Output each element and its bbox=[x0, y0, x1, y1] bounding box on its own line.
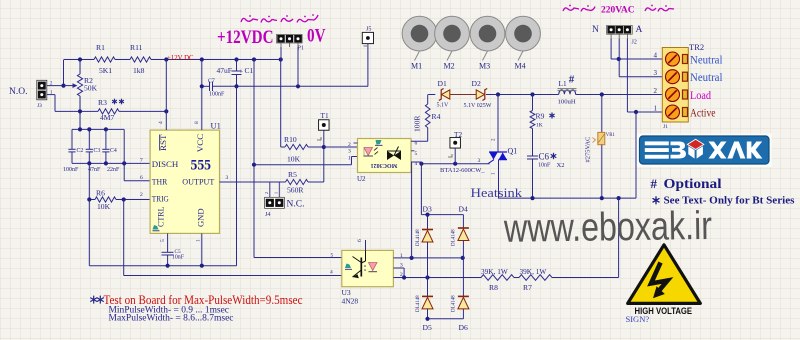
svg-text:D2: D2 bbox=[472, 79, 481, 88]
connector J2 bbox=[592, 25, 643, 46]
wire U3 pin5 row bbox=[254, 257, 342, 259]
svg-text:47nF: 47nF bbox=[88, 167, 101, 173]
label mains persian bbox=[563, 5, 674, 12]
svg-text:8: 8 bbox=[194, 121, 200, 124]
label test note stars bbox=[90, 296, 104, 304]
svg-text:1: 1 bbox=[348, 156, 351, 162]
svg-text:THR: THR bbox=[152, 176, 168, 186]
svg-text:5.1V: 5.1V bbox=[437, 103, 450, 109]
svg-text:3: 3 bbox=[400, 262, 403, 268]
svg-text:SIGN?: SIGN? bbox=[626, 314, 650, 324]
svg-text:6: 6 bbox=[140, 175, 143, 181]
wire U3 pin6 stub bbox=[357, 239, 366, 250]
svg-text:1: 1 bbox=[196, 239, 202, 242]
svg-text:J2: J2 bbox=[632, 40, 637, 46]
label N.O. bbox=[9, 87, 27, 97]
svg-text:R7: R7 bbox=[523, 283, 532, 292]
optocoupler U2 body bbox=[357, 139, 411, 184]
resistor R3 bbox=[98, 98, 166, 122]
svg-text:3: 3 bbox=[348, 149, 351, 155]
wire J2 mid to J1 pin3 bbox=[619, 39, 662, 77]
svg-text:10K: 10K bbox=[97, 202, 111, 211]
svg-text:OUTPUT: OUTPUT bbox=[182, 176, 215, 186]
svg-text:DL4148: DL4148 bbox=[452, 229, 457, 246]
wire D2 to L1 bbox=[486, 92, 559, 96]
svg-text:39K, 1W: 39K, 1W bbox=[520, 267, 547, 276]
svg-text:J1: J1 bbox=[663, 124, 668, 130]
wire U2 pin4 to gate/bridge bbox=[411, 162, 421, 215]
wire DISCH-THR link bbox=[124, 129, 151, 180]
wire node to U2 pin3 bbox=[324, 146, 358, 148]
svg-text:TRIG: TRIG bbox=[152, 193, 169, 203]
svg-text:CTRL: CTRL bbox=[155, 207, 165, 228]
capacitor C7 bbox=[202, 79, 237, 98]
optocoupler U3 body bbox=[342, 250, 394, 305]
svg-text:A: A bbox=[636, 25, 643, 35]
icon high voltage triangle bbox=[628, 245, 701, 304]
svg-text:MaxPulseWidth- = 8.6...8.7mse: MaxPulseWidth- = 8.6...8.7msec bbox=[109, 313, 234, 323]
label #275VAC bbox=[585, 137, 592, 163]
label See Text note bbox=[653, 196, 795, 207]
svg-text:R6: R6 bbox=[96, 189, 105, 198]
svg-text:10nF: 10nF bbox=[172, 255, 185, 261]
wire U3 pin2 row bbox=[393, 275, 481, 279]
resistor R10 bbox=[284, 135, 308, 164]
wire MT1 rail bbox=[498, 196, 636, 200]
resistor R11 bbox=[130, 43, 151, 75]
wire GND drop left bbox=[88, 200, 90, 266]
svg-text:47uF: 47uF bbox=[217, 66, 232, 75]
wire R7 to rail bbox=[552, 198, 619, 277]
wire R8-R7 bbox=[514, 277, 519, 279]
svg-text:7: 7 bbox=[140, 158, 143, 164]
wire Q1 MT2 bbox=[492, 95, 499, 153]
svg-text:C4: C4 bbox=[110, 148, 117, 154]
connector P1 bbox=[277, 34, 304, 51]
label U3 pin numbers bbox=[330, 252, 403, 278]
label +12V DC bbox=[167, 55, 194, 62]
diode D6 bbox=[452, 295, 469, 332]
svg-text:50K: 50K bbox=[84, 84, 98, 93]
wire U2 pin2 stub bbox=[354, 142, 358, 144]
svg-text:100uH: 100uH bbox=[558, 99, 576, 106]
wire GND pin drop bbox=[201, 233, 203, 265]
wire +12V rail bbox=[64, 59, 281, 61]
svg-text:M2: M2 bbox=[444, 62, 455, 71]
svg-text:Active: Active bbox=[690, 106, 716, 120]
svg-text:D6: D6 bbox=[459, 323, 468, 332]
wire U3 pin3 stub bbox=[393, 268, 404, 278]
potentiometer R2 bbox=[77, 60, 97, 130]
transistor Q1 triac bbox=[488, 147, 517, 164]
wire D1-D2 bbox=[450, 94, 477, 96]
svg-text:R10: R10 bbox=[284, 135, 297, 144]
svg-text:#275VAC: #275VAC bbox=[585, 137, 592, 163]
svg-text:R8: R8 bbox=[489, 283, 498, 292]
svg-text:100nF: 100nF bbox=[63, 167, 79, 173]
motor M4 bbox=[506, 16, 541, 70]
svg-text:Load: Load bbox=[690, 88, 711, 102]
wire A to J1 pin1 bbox=[627, 39, 662, 115]
svg-text:VCC: VCC bbox=[195, 134, 205, 153]
svg-text:4: 4 bbox=[654, 52, 658, 60]
svg-text:1: 1 bbox=[274, 192, 279, 194]
wire J3 pin1 run bbox=[47, 95, 98, 112]
wire 0V line bbox=[234, 84, 368, 88]
wire bridge top bar bbox=[421, 213, 463, 217]
svg-text:TR2: TR2 bbox=[689, 42, 704, 52]
diode D5 bbox=[416, 278, 433, 333]
svg-text:R9: R9 bbox=[536, 112, 545, 121]
svg-text:D4: D4 bbox=[459, 205, 468, 214]
wire P1 pin3 to 0V bbox=[297, 47, 299, 86]
wire cap bank top rail bbox=[72, 127, 124, 131]
svg-text:GND: GND bbox=[195, 209, 205, 228]
svg-text:M1: M1 bbox=[411, 62, 422, 71]
svg-text:3: 3 bbox=[654, 69, 658, 77]
wire +12 drop x254 bbox=[252, 60, 256, 258]
wire C3 to TRIG bbox=[88, 163, 90, 199]
connector J1 TR2 body bbox=[662, 42, 704, 130]
svg-text:10nF: 10nF bbox=[538, 163, 551, 169]
svg-text:+: + bbox=[239, 68, 243, 76]
wire Q1 MT1 bbox=[492, 160, 499, 199]
svg-text:6: 6 bbox=[357, 239, 363, 242]
wire R4 to U2 pin6 bbox=[411, 128, 428, 142]
connector J4 bbox=[264, 182, 284, 218]
svg-text:Neutral: Neutral bbox=[690, 70, 723, 84]
wire J5 to 0V bbox=[367, 44, 369, 87]
svg-text:2: 2 bbox=[654, 87, 658, 95]
svg-text:100R: 100R bbox=[413, 115, 422, 132]
label max pulse bbox=[109, 313, 234, 323]
wire AC row left bbox=[428, 94, 435, 96]
svg-text:R1: R1 bbox=[96, 43, 105, 52]
label J1 pin numbers bbox=[654, 52, 658, 113]
svg-text:1K: 1K bbox=[536, 123, 543, 129]
capacitor C3 bbox=[86, 129, 101, 173]
label Persian external supply bbox=[241, 14, 318, 22]
diode D1 zener 5.1V bbox=[437, 79, 450, 109]
wire U3 pin1 riser bbox=[411, 162, 413, 258]
svg-text:M4: M4 bbox=[515, 62, 526, 71]
wire Active drop bbox=[635, 112, 637, 198]
svg-text:R3: R3 bbox=[98, 98, 107, 107]
svg-text:C3: C3 bbox=[94, 148, 101, 154]
connector J1 screws bbox=[666, 52, 688, 119]
svg-text:+12V DC: +12V DC bbox=[167, 55, 194, 62]
svg-text:Neutral: Neutral bbox=[690, 53, 723, 67]
svg-text:560R: 560R bbox=[287, 186, 304, 195]
label BTA12-600CW bbox=[440, 167, 485, 174]
svg-text:5: 5 bbox=[160, 239, 166, 242]
resistor R1 bbox=[94, 43, 115, 75]
svg-text:Q1: Q1 bbox=[508, 147, 518, 156]
motor M3 bbox=[470, 16, 505, 70]
wire OUTPUT row bbox=[220, 181, 286, 183]
label +12VDC bbox=[217, 27, 274, 48]
wire U2 pin1 feed bbox=[254, 157, 358, 165]
capacitor C4 bbox=[102, 129, 120, 173]
svg-text:Heatsink: Heatsink bbox=[471, 186, 523, 200]
connector J3 bbox=[37, 80, 53, 109]
wire rail2 drop bbox=[123, 200, 125, 276]
svg-text:4M7: 4M7 bbox=[100, 113, 115, 122]
node C7 tap bbox=[200, 84, 204, 88]
svg-text:R4: R4 bbox=[432, 112, 441, 121]
op-amp U1 555 body bbox=[150, 121, 221, 234]
label Heatsink bbox=[471, 186, 523, 200]
svg-text:C1: C1 bbox=[245, 66, 254, 75]
wire cap bank bottom / DISCH bbox=[72, 161, 151, 165]
wire TRIG row bbox=[87, 197, 151, 201]
label Neutral 1 bbox=[690, 53, 723, 67]
wire J3 pin2 to pot bbox=[47, 60, 64, 86]
svg-text:T2: T2 bbox=[454, 130, 462, 139]
resistor R9 bbox=[530, 95, 554, 129]
diode D4 bbox=[452, 205, 469, 319]
svg-text:2: 2 bbox=[264, 192, 269, 194]
resistor R6 bbox=[95, 189, 116, 212]
capacitor C2 bbox=[63, 129, 83, 173]
label 220VAC bbox=[601, 6, 635, 16]
svg-text:555: 555 bbox=[191, 158, 212, 174]
svg-text:D1: D1 bbox=[438, 79, 447, 88]
wire R10 feed bbox=[281, 60, 285, 148]
svg-text:M3: M3 bbox=[479, 62, 490, 71]
svg-text:J3: J3 bbox=[37, 103, 42, 109]
svg-text:0V: 0V bbox=[307, 27, 326, 47]
svg-text:U2: U2 bbox=[357, 175, 366, 183]
svg-text:1: 1 bbox=[654, 105, 658, 113]
motor M2 bbox=[435, 16, 470, 70]
resistor R4 bbox=[413, 95, 441, 133]
wire RST riser bbox=[165, 60, 167, 131]
node J3 pin2 junction bbox=[61, 84, 65, 88]
motor M1 bbox=[402, 16, 437, 70]
svg-text:R11: R11 bbox=[130, 43, 143, 52]
test point T2 bbox=[448, 130, 462, 164]
svg-text:22nF: 22nF bbox=[107, 167, 120, 173]
svg-text:5: 5 bbox=[415, 151, 418, 157]
svg-text:T1: T1 bbox=[321, 111, 329, 120]
wire N to J1 pin4 bbox=[611, 39, 662, 62]
svg-text:N: N bbox=[592, 25, 599, 35]
svg-text:D3: D3 bbox=[423, 205, 432, 214]
connector J5 bbox=[362, 27, 373, 47]
capacitor C6 bbox=[527, 129, 564, 199]
svg-text:X2: X2 bbox=[557, 162, 565, 169]
label test note red bbox=[104, 292, 303, 307]
label Load bbox=[690, 88, 711, 102]
label min pulse bbox=[109, 305, 230, 315]
svg-text:J4: J4 bbox=[265, 212, 270, 218]
svg-text:4: 4 bbox=[158, 121, 164, 124]
node +12V junctions bbox=[78, 57, 283, 61]
label HIGH VOLTAGE bbox=[635, 306, 693, 316]
label N.C. bbox=[287, 200, 305, 210]
label SIGN? bbox=[626, 314, 650, 324]
logo EBOXAK bbox=[637, 134, 772, 168]
svg-text:DL4148: DL4148 bbox=[452, 295, 457, 312]
wire VCC riser bbox=[201, 60, 203, 131]
svg-text:www.eboxak.ir: www.eboxak.ir bbox=[503, 204, 712, 251]
svg-text:J5: J5 bbox=[366, 27, 371, 33]
resistor R8 bbox=[481, 267, 514, 292]
svg-text:C6: C6 bbox=[539, 152, 550, 162]
wire L1 to J1 pin2 bbox=[576, 92, 663, 96]
label TR2 - none bbox=[0, 0, 1, 1]
svg-text:5.1V 025W: 5.1V 025W bbox=[464, 103, 492, 109]
svg-text:BTA12-600CW_: BTA12-600CW_ bbox=[440, 167, 485, 174]
label Active bbox=[690, 106, 716, 120]
capacitor C5 bbox=[162, 233, 185, 265]
label U2 pin numbers bbox=[348, 141, 418, 167]
capacitor C1 bbox=[217, 60, 254, 87]
svg-text:R5: R5 bbox=[288, 170, 297, 179]
wire bridge bottom bar bbox=[425, 317, 463, 321]
wire rail2 to U3 pin4 bbox=[124, 275, 342, 277]
label 0V bbox=[307, 27, 326, 47]
label www.eboxak.ir bbox=[503, 204, 712, 251]
wire P1 pin1 to rail bbox=[280, 47, 282, 60]
resistor R7 bbox=[519, 267, 552, 292]
svg-text:2: 2 bbox=[140, 192, 143, 198]
node R3 junctions bbox=[78, 109, 168, 113]
svg-text:MOC3021: MOC3021 bbox=[371, 162, 398, 168]
diode D2 zener 5.1V 025W bbox=[464, 79, 492, 109]
svg-text:5: 5 bbox=[331, 252, 334, 258]
svg-text:DL4148: DL4148 bbox=[416, 295, 421, 312]
wire gate row bbox=[419, 158, 489, 166]
wire U2 pin5 stub bbox=[411, 150, 415, 152]
svg-text:Optional: Optional bbox=[664, 176, 722, 191]
svg-text:100nF: 100nF bbox=[209, 91, 225, 97]
svg-text:1k8: 1k8 bbox=[133, 66, 145, 75]
svg-text:+12VDC: +12VDC bbox=[217, 27, 274, 48]
svg-text:3: 3 bbox=[478, 158, 481, 164]
resistor R5 bbox=[286, 170, 309, 195]
test point T1 bbox=[317, 111, 329, 147]
label R3 stars bbox=[112, 99, 124, 105]
svg-text:#: # bbox=[569, 74, 575, 86]
label # Optional bbox=[651, 176, 722, 191]
svg-text:D5: D5 bbox=[423, 323, 432, 332]
wire GND long drop bbox=[236, 86, 238, 265]
svg-text:N.C.: N.C. bbox=[287, 200, 305, 210]
svg-text:10K: 10K bbox=[287, 155, 301, 164]
label Neutral 2 bbox=[690, 70, 723, 84]
svg-text:39K, 1W: 39K, 1W bbox=[481, 267, 508, 276]
svg-text:VR1: VR1 bbox=[606, 133, 616, 138]
svg-text:4: 4 bbox=[330, 270, 333, 276]
svg-text:C7: C7 bbox=[208, 79, 215, 85]
svg-text:DL4148: DL4148 bbox=[416, 229, 421, 246]
wire R5 up bbox=[308, 147, 324, 182]
wire U3 pin1 row bbox=[393, 256, 464, 260]
svg-text:U1: U1 bbox=[211, 121, 221, 131]
svg-text:2: 2 bbox=[348, 142, 351, 148]
svg-text:C2: C2 bbox=[77, 148, 84, 154]
wire GND rail1 bbox=[89, 264, 236, 268]
inductor L1 bbox=[558, 74, 577, 106]
wire R10 to node bbox=[308, 145, 326, 149]
wire pot wiper arrow bbox=[64, 83, 78, 88]
varistor VR1 bbox=[593, 95, 616, 199]
svg-text:#: # bbox=[651, 176, 658, 191]
svg-text:3: 3 bbox=[226, 175, 229, 181]
svg-text:DISCH: DISCH bbox=[152, 159, 179, 169]
svg-text:4N28: 4N28 bbox=[342, 297, 359, 306]
diode D3 bbox=[416, 205, 433, 278]
svg-text:5K1: 5K1 bbox=[99, 66, 112, 75]
svg-text:220VAC: 220VAC bbox=[601, 6, 635, 16]
label 555 pin numbers bbox=[140, 121, 229, 242]
svg-text:N.O.: N.O. bbox=[9, 87, 27, 97]
svg-text:L1: L1 bbox=[559, 79, 567, 88]
